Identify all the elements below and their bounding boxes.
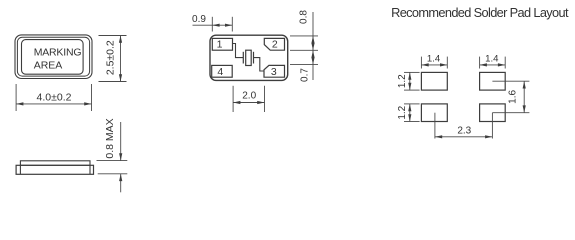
svg-text:Recommended Solder Pad Layout: Recommended Solder Pad Layout: [391, 5, 569, 20]
right-side extension line (pad bottom): [290, 49, 318, 51]
svg-text:2.5±0.2: 2.5±0.2: [104, 40, 116, 75]
dim 1.6: vertical line + arrows: [523, 81, 525, 113]
crystal left plate: [242, 52, 244, 64]
vertical dim line for 0.8/0.7: [312, 12, 314, 80]
arrows between pkg top and pad bottom: [311, 36, 314, 43]
svg-text:4.0±0.2: 4.0±0.2: [37, 92, 72, 104]
svg-text:0.8 MAX: 0.8 MAX: [104, 118, 116, 158]
dimension 0.9 extension line left: [211, 17, 213, 32]
pad 3 (chamfer top-left): [264, 65, 285, 77]
arrow bottom of 2.5 dim: [119, 74, 122, 81]
dim 1.4 left: line + arrows: [421, 64, 447, 66]
dimension 2.0 extension line left: [232, 86, 234, 112]
svg-text:0.8: 0.8: [299, 10, 310, 24]
solder pad top-right: [480, 72, 506, 90]
svg-text:1.2: 1.2: [397, 105, 408, 119]
svg-text:MARKING: MARKING: [34, 46, 82, 58]
crystal body rect: [246, 50, 252, 65]
dim 1.2 top: ext lines: [404, 71, 420, 73]
dimension 2.5±0.2 line: [120, 36, 122, 82]
dim 1.2 top: line + arrows: [409, 72, 411, 90]
svg-text:1.4: 1.4: [485, 54, 499, 65]
svg-text:1: 1: [217, 39, 223, 51]
dimension 0.9 line: [193, 24, 233, 26]
side view body: [16, 165, 93, 174]
arrow left of 4.0 dim: [16, 102, 23, 105]
svg-text:2.0: 2.0: [242, 91, 256, 102]
arrow top of 2.5 dim: [119, 36, 122, 43]
right-side extension line (pkg top): [290, 35, 318, 37]
dim 1.4 right: line + arrows: [480, 64, 506, 66]
svg-text:0.7: 0.7: [300, 68, 311, 82]
dimension 4.0±0.2 line: [16, 103, 91, 105]
dimension 2.0 line: [233, 102, 264, 104]
dimension 0.9 extension line right: [231, 17, 233, 32]
wire from crystal to pad 3: [254, 58, 265, 71]
dim 2.3: leader from bottom-right pad center: [491, 113, 493, 139]
side view right terminal separator: [89, 165, 91, 174]
dimension 0.8 MAX extension line bottom: [98, 173, 128, 175]
dim 2.3: line + arrows: [435, 136, 493, 138]
pad 2 (chamfer bottom-left): [264, 38, 284, 50]
package outer outline (top view): [15, 35, 92, 79]
svg-text:2.3: 2.3: [457, 126, 471, 137]
solder pad top-left: [421, 72, 447, 90]
svg-text:AREA: AREA: [34, 59, 63, 71]
side view left terminal separator: [19, 165, 21, 174]
svg-text:1.2: 1.2: [397, 74, 408, 88]
0.8 MAX lower arrow (pointing up): [120, 174, 122, 193]
dim 1.6: leader from bottom-right pad center: [492, 112, 529, 114]
dim 1.2 bottom: ext lines: [404, 103, 420, 105]
dim 1.4 left: ext lines: [420, 57, 422, 69]
2.0 arrows: [233, 101, 240, 104]
pad 4: [212, 65, 233, 77]
arrows between pad bottom and pad top: [311, 50, 314, 57]
svg-text:0.9: 0.9: [192, 14, 206, 25]
dimension 2.5±0.2 extension line top: [99, 35, 127, 37]
right-side extension line (pad top lower): [290, 64, 318, 66]
svg-text:3: 3: [271, 66, 277, 78]
side view lid: [20, 161, 90, 166]
dim 2.3: leader from bottom-left pad center: [434, 113, 436, 139]
solder pad bottom-right: [480, 104, 506, 122]
dimension 4.0±0.2 extension line left: [15, 84, 17, 111]
svg-text:4: 4: [217, 66, 223, 78]
dimension 4.0±0.2 extension line right: [91, 84, 93, 111]
0.8 MAX upper arrow (pointing down): [120, 122, 122, 161]
crystal right plate: [253, 52, 255, 64]
dimension 0.8 MAX extension line top: [97, 160, 128, 162]
wire from pad 1 to crystal: [233, 44, 244, 58]
marking area border: [22, 40, 84, 75]
svg-text:2: 2: [272, 39, 278, 51]
pad 1: [212, 38, 232, 50]
dim 1.6: leader from top-right pad center: [492, 80, 529, 82]
dimension 2.5±0.2 extension line bottom: [99, 81, 127, 83]
dim 1.2 bottom: line + arrows: [409, 104, 411, 122]
svg-text:1.4: 1.4: [427, 54, 441, 65]
0.9 left arrow (pointing left, tip at left ext): [212, 24, 219, 27]
package outline (bottom view): [210, 35, 288, 80]
dimension 2.0 extension line right: [264, 86, 266, 112]
package inner outline (lid seam): [17, 37, 89, 76]
arrow right of 4.0 dim: [84, 102, 91, 105]
solder pad bottom-left: [421, 104, 447, 122]
0.9 right arrow (pointing right, tip at right ext): [225, 24, 232, 27]
dim 1.4 right: ext lines: [479, 57, 481, 69]
svg-text:1.6: 1.6: [508, 90, 519, 104]
